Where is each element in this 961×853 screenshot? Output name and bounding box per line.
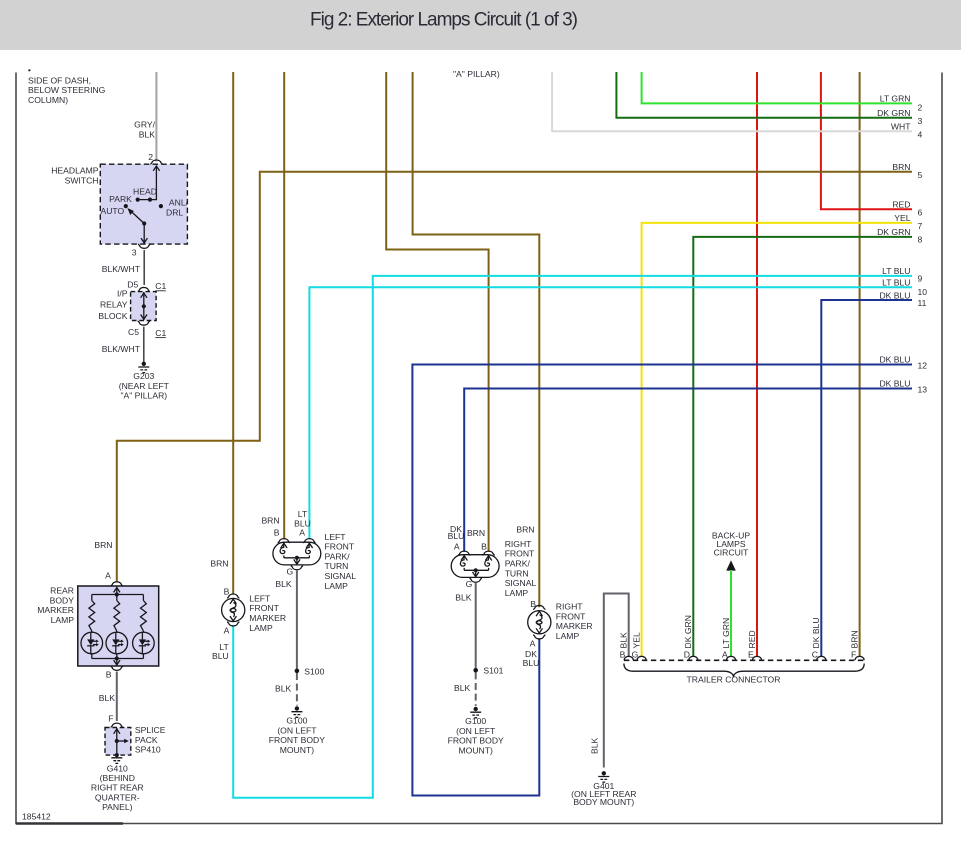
svg-text:5: 5	[918, 170, 923, 180]
svg-text:PANEL): PANEL)	[102, 802, 133, 812]
svg-text:BLK: BLK	[275, 579, 292, 589]
svg-text:DK GRN: DK GRN	[877, 227, 910, 237]
ground G100 left	[295, 706, 299, 710]
svg-text:G203: G203	[133, 371, 154, 381]
svg-text:S100: S100	[304, 666, 324, 676]
svg-text:LT GRN: LT GRN	[880, 94, 911, 104]
dashed BLK to ground G100 right	[475, 672, 477, 706]
svg-text:"A" PILLAR): "A" PILLAR)	[453, 69, 500, 79]
svg-text:YEL: YEL	[631, 632, 641, 648]
splice S100	[295, 669, 300, 674]
svg-text:9: 9	[918, 274, 923, 284]
svg-text:LAMP: LAMP	[249, 623, 273, 633]
wire DK GRN pin 8 to trailer connector pin D	[693, 237, 912, 657]
svg-text:LT BLU: LT BLU	[882, 278, 910, 288]
LED lamp D3	[133, 632, 155, 654]
svg-text:2: 2	[148, 152, 153, 162]
svg-text:3: 3	[132, 248, 137, 258]
svg-text:LT GRN: LT GRN	[721, 618, 731, 649]
ground G410	[111, 758, 122, 764]
splice S101	[473, 668, 478, 673]
trailer connector pin E (RED)	[753, 656, 762, 660]
svg-text:C5: C5	[128, 327, 139, 337]
trailer connector pin B (BLK)	[624, 656, 633, 660]
svg-text:TURN: TURN	[505, 568, 529, 578]
wire DK BLU pin 13 to right front park/turn lamp pin A	[464, 389, 912, 552]
wire BLK to S101	[475, 583, 477, 670]
svg-text:D5: D5	[127, 280, 138, 290]
svg-text:LEFT: LEFT	[325, 532, 347, 542]
wire LT GRN to pin 2	[642, 72, 912, 103]
wire BLK rear lamp to splice pack	[116, 672, 118, 722]
svg-text:BLK: BLK	[454, 683, 471, 693]
svg-text:FRONT: FRONT	[325, 542, 355, 552]
svg-text:TURN: TURN	[325, 561, 349, 571]
svg-text:RELAY: RELAY	[100, 300, 128, 310]
svg-text:COLUMN): COLUMN)	[28, 95, 68, 105]
svg-text:BLU: BLU	[448, 531, 465, 541]
wire YEL pin 7 to trailer connector pin G	[642, 223, 912, 657]
svg-text:TRAILER CONNECTOR: TRAILER CONNECTOR	[687, 674, 781, 684]
svg-text:(NEAR LEFT: (NEAR LEFT	[119, 381, 170, 391]
svg-text:D: D	[684, 650, 690, 660]
wire LT BLU pin 9 to left front marker lamp pin A	[233, 276, 912, 798]
svg-text:RIGHT REAR: RIGHT REAR	[91, 783, 144, 793]
svg-text:LAMP: LAMP	[556, 631, 580, 641]
svg-text:A: A	[530, 638, 536, 648]
svg-text:A: A	[299, 527, 305, 537]
svg-text:MOUNT): MOUNT)	[280, 745, 315, 755]
wire DK GRN to pin 3	[616, 72, 912, 118]
svg-text:CIRCUIT: CIRCUIT	[714, 547, 750, 557]
trailer connector pin F (BRN)	[855, 656, 864, 660]
wire LT BLU pin 10 to left front park/turn lamp pin A	[309, 287, 912, 539]
svg-text:BODY MOUNT): BODY MOUNT)	[573, 797, 634, 807]
svg-text:A: A	[105, 570, 111, 580]
wire BRN pin 5 to rear body marker lamp pin A	[117, 172, 912, 581]
wire BRN to left front marker lamp pin B	[232, 72, 234, 594]
svg-text:A: A	[454, 541, 460, 551]
resistor R2	[116, 595, 118, 601]
svg-text:F: F	[108, 714, 113, 724]
svg-text:QUARTER-: QUARTER-	[95, 792, 140, 802]
wire BLK trailer pin B to ground G401	[604, 594, 629, 768]
svg-text:13: 13	[918, 385, 928, 395]
svg-text:RED: RED	[892, 200, 910, 210]
svg-text:BLK/WHT: BLK/WHT	[102, 344, 141, 354]
svg-text:YEL: YEL	[894, 213, 910, 223]
svg-text:8: 8	[918, 235, 923, 245]
svg-text:LAMP: LAMP	[325, 581, 349, 591]
svg-text:G410: G410	[107, 763, 128, 773]
svg-text:Fig 2: Exterior Lamps Circuit: Fig 2: Exterior Lamps Circuit (1 of 3)	[310, 10, 578, 31]
svg-text:BRN: BRN	[94, 540, 112, 550]
svg-text:G: G	[632, 650, 639, 660]
svg-text:BLK/WHT: BLK/WHT	[102, 264, 141, 274]
svg-text:LAMP: LAMP	[51, 615, 75, 625]
wire BLK to S100	[296, 571, 298, 671]
svg-text:BELOW STEERING: BELOW STEERING	[28, 85, 106, 95]
brace TRAILER CONNECTOR	[624, 664, 864, 678]
ground G203	[142, 362, 146, 366]
switch internal wiring	[138, 166, 157, 200]
svg-text:BRN: BRN	[892, 162, 910, 172]
svg-text:FRONT BODY: FRONT BODY	[448, 736, 504, 746]
pin 3 connector	[138, 244, 150, 248]
wire BLK/WHT relay to ground G203	[143, 327, 145, 362]
svg-text:SP410: SP410	[135, 745, 161, 755]
wire DK BLU pin 12 to right front marker lamp pin A	[412, 365, 912, 796]
svg-text:E: E	[748, 650, 754, 660]
ground G401	[602, 771, 606, 775]
svg-text:11: 11	[918, 298, 927, 308]
wire BRN to right front park/turn lamp pin B	[386, 72, 488, 552]
dashed BLK to ground G100	[296, 673, 298, 706]
svg-text:2: 2	[918, 103, 923, 113]
svg-text:C1: C1	[155, 328, 166, 338]
wire WHT to pin 4	[552, 72, 912, 131]
svg-text:G100: G100	[465, 716, 486, 726]
svg-text:DK BLU: DK BLU	[879, 290, 910, 300]
svg-text:GRY/: GRY/	[134, 120, 155, 130]
svg-text:"A" PILLAR): "A" PILLAR)	[120, 391, 167, 401]
trailer connector pin C (DK BLU)	[817, 656, 826, 660]
svg-text:DK GRN: DK GRN	[683, 615, 693, 648]
svg-text:ANL/: ANL/	[169, 198, 189, 208]
svg-text:4: 4	[918, 130, 923, 140]
svg-text:C: C	[812, 650, 818, 660]
svg-text:RED: RED	[747, 630, 757, 648]
border bottom-left thick segment	[16, 822, 123, 824]
svg-text:SIDE OF DASH,: SIDE OF DASH,	[28, 75, 91, 85]
svg-text:(BEHIND: (BEHIND	[100, 773, 135, 783]
svg-text:G100: G100	[286, 716, 307, 726]
svg-text:BLK: BLK	[99, 693, 116, 703]
svg-text:LAMP: LAMP	[505, 588, 529, 598]
svg-text:DK BLU: DK BLU	[879, 379, 910, 389]
svg-text:SIGNAL: SIGNAL	[505, 578, 537, 588]
svg-text:BLK: BLK	[139, 130, 156, 140]
svg-text:BRN: BRN	[849, 630, 859, 648]
svg-text:BLK: BLK	[275, 684, 292, 694]
trailer connector pin G (YEL)	[637, 656, 646, 660]
svg-text:B: B	[274, 527, 280, 537]
svg-text:HEADLAMP: HEADLAMP	[51, 166, 99, 176]
trailer connector dashed line	[624, 659, 864, 661]
header bar	[0, 0, 961, 50]
wire RED to trailer connector pin E	[756, 72, 758, 657]
svg-text:PARK/: PARK/	[505, 559, 531, 569]
svg-text:RIGHT: RIGHT	[505, 539, 532, 549]
svg-text:10: 10	[918, 287, 928, 297]
svg-text:185412: 185412	[22, 812, 51, 822]
svg-text:RIGHT: RIGHT	[556, 602, 583, 612]
svg-text:6: 6	[918, 208, 923, 218]
svg-text:3: 3	[918, 116, 923, 126]
svg-text:B: B	[620, 650, 626, 660]
svg-text:FRONT BODY: FRONT BODY	[269, 735, 325, 745]
svg-text:BLU: BLU	[212, 651, 229, 661]
wire BRN to trailer connector pin F	[859, 72, 861, 657]
svg-text:LEFT: LEFT	[249, 593, 271, 603]
svg-text:MARKER: MARKER	[37, 605, 74, 615]
svg-text:BRN: BRN	[516, 524, 534, 534]
wire GRY/BLK from top to headlamp switch	[155, 72, 157, 162]
svg-text:PACK: PACK	[135, 735, 158, 745]
svg-text:7: 7	[918, 221, 923, 231]
svg-text:A: A	[224, 626, 230, 636]
LED lamp D2	[106, 632, 128, 654]
svg-text:BRN: BRN	[210, 559, 228, 569]
svg-text:BLU: BLU	[523, 658, 540, 668]
wire BRN to right front marker lamp pin B	[413, 72, 540, 607]
svg-text:MARKER: MARKER	[556, 621, 593, 631]
svg-text:PARK/: PARK/	[325, 551, 351, 561]
svg-text:FRONT: FRONT	[249, 603, 279, 613]
svg-text:B: B	[224, 587, 230, 597]
svg-text:MARKER: MARKER	[249, 613, 286, 623]
svg-text:BLK: BLK	[590, 737, 600, 754]
svg-text:BLK: BLK	[619, 632, 629, 649]
svg-text:S101: S101	[483, 666, 503, 676]
svg-text:DK BLU: DK BLU	[811, 617, 821, 648]
switch lever	[132, 212, 144, 223]
svg-text:DK BLU: DK BLU	[879, 355, 910, 365]
svg-text:12: 12	[918, 361, 928, 371]
svg-text:(ON LEFT: (ON LEFT	[277, 725, 317, 735]
svg-text:PARK: PARK	[109, 194, 132, 204]
svg-text:AUTO: AUTO	[100, 206, 124, 216]
svg-text:B: B	[481, 541, 487, 551]
svg-text:B: B	[106, 670, 112, 680]
wire RED to pin 6	[821, 72, 912, 209]
svg-text:G: G	[466, 579, 473, 589]
svg-text:(ON LEFT: (ON LEFT	[456, 726, 496, 736]
svg-text:G: G	[287, 567, 294, 577]
svg-text:LT BLU: LT BLU	[882, 266, 910, 276]
svg-text:DK GRN: DK GRN	[877, 108, 910, 118]
svg-text:BODY: BODY	[50, 595, 75, 605]
wire BLK/WHT switch to I/P relay block	[143, 250, 145, 285]
trailer connector pin D (DK GRN)	[689, 656, 698, 660]
svg-text:DRL: DRL	[166, 207, 183, 217]
svg-text:MOUNT): MOUNT)	[459, 745, 494, 755]
svg-text:I/P: I/P	[117, 288, 128, 298]
svg-text:REAR: REAR	[50, 586, 74, 596]
headlamp switch U1	[100, 164, 187, 244]
cut-off location text top left	[28, 69, 30, 71]
svg-text:HEAD: HEAD	[133, 186, 157, 196]
svg-text:A: A	[722, 650, 728, 660]
svg-text:C1: C1	[155, 281, 166, 291]
svg-text:SWITCH: SWITCH	[65, 175, 99, 185]
svg-text:BRN: BRN	[261, 515, 279, 525]
trailer connector pin A (LT GRN)	[727, 656, 736, 660]
ground G100 right	[474, 707, 478, 711]
svg-text:BRN: BRN	[467, 528, 485, 538]
resistor R3	[142, 595, 144, 601]
svg-text:FRONT: FRONT	[505, 549, 535, 559]
wire BRN to left front park/turn lamp pin B	[283, 72, 285, 539]
svg-text:F: F	[851, 650, 856, 660]
svg-text:FRONT: FRONT	[556, 611, 586, 621]
LED lamp D1	[81, 632, 103, 654]
svg-text:SPLICE: SPLICE	[135, 725, 166, 735]
svg-text:WHT: WHT	[891, 122, 911, 132]
wire DK BLU pin 11 to trailer connector pin C	[821, 300, 912, 657]
svg-text:BLOCK: BLOCK	[98, 311, 127, 321]
resistor R1	[91, 595, 93, 601]
svg-text:BLK: BLK	[455, 592, 472, 602]
svg-text:SIGNAL: SIGNAL	[325, 571, 357, 581]
wire LT GRN back-up lamps to trailer pin A	[730, 570, 732, 657]
